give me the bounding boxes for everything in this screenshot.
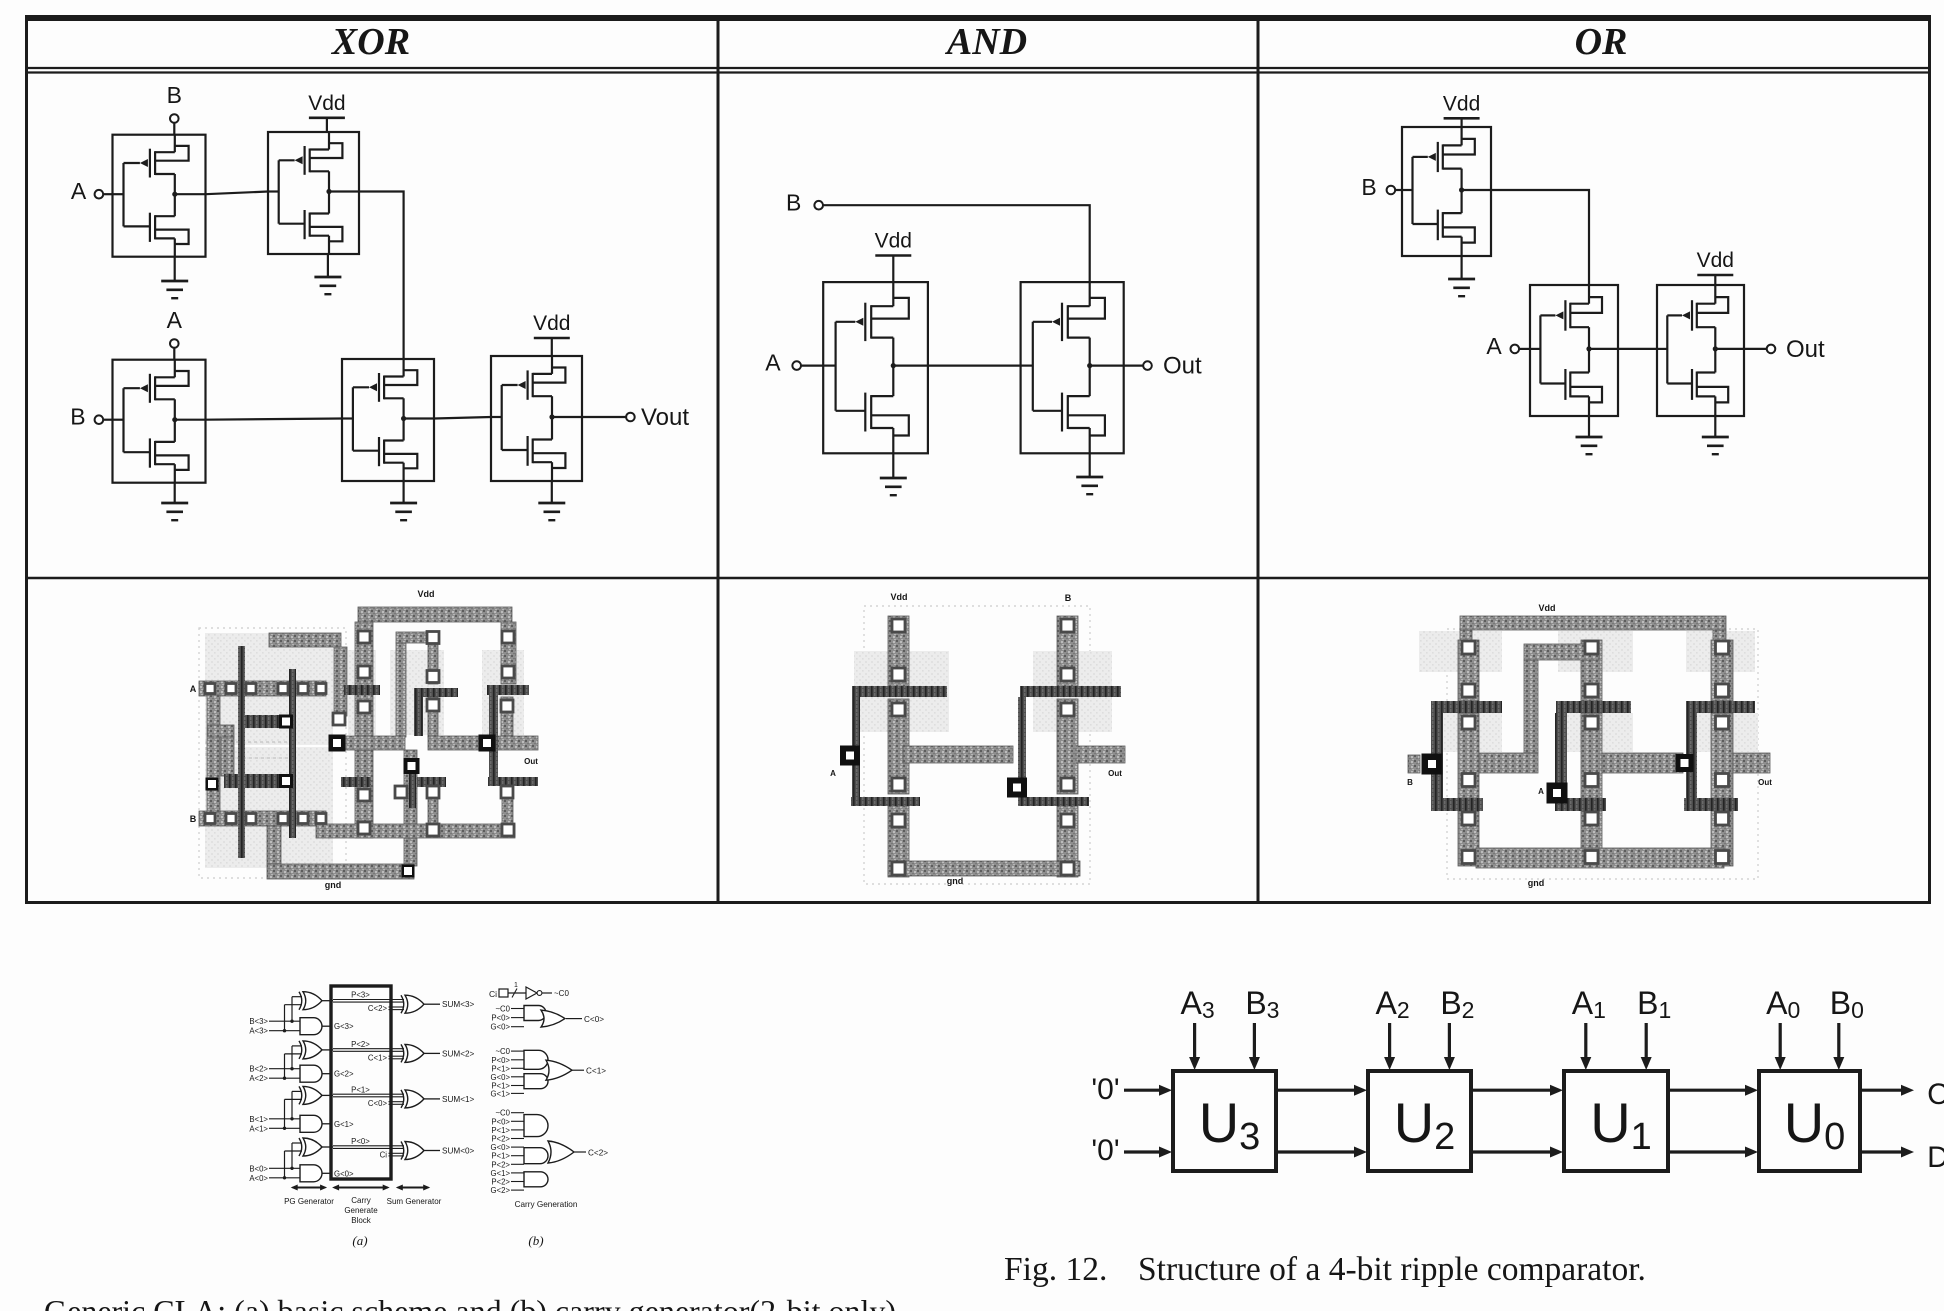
svg-text:C: C [1927, 1078, 1944, 1111]
svg-text:C<1>: C<1> [586, 1067, 606, 1076]
arrows U2 to U1 [1471, 1085, 1563, 1158]
svg-text:D: D [1927, 1141, 1944, 1174]
gate input bus of A1 (AND first inverter) [823, 322, 896, 411]
svg-text:A: A [190, 684, 197, 694]
svg-text:C<2>: C<2> [588, 1148, 608, 1157]
ground below X3 [161, 483, 188, 520]
svg-text:B<3>: B<3> [249, 1017, 268, 1026]
PMOS transistor of R1 (OR first inverter) [1413, 127, 1475, 190]
output terminal Out of OR cell [1744, 336, 1825, 363]
svg-text:A<0>: A<0> [249, 1174, 268, 1183]
NMOS transistor of X2 (XOR top-right inverter) [279, 192, 343, 255]
CLA sum XOR gate bit 1 [401, 1090, 424, 1108]
wire B to A2 top terminal [823, 205, 1090, 282]
gate input bus of R2 (OR middle block) [1530, 315, 1592, 383]
arrow A3 into U3 [1189, 1023, 1200, 1070]
output wire inside X3 (XOR bottom-left) [175, 419, 206, 421]
svg-text:Vdd: Vdd [418, 589, 435, 599]
ground below X5 [538, 481, 565, 520]
PMOS transistor of X3 (XOR bottom-left) [124, 360, 189, 420]
output wire inside R1 (OR first inverter) [1462, 189, 1491, 191]
transistor pair block X3 (XOR bottom-left) (box) [113, 360, 206, 483]
svg-text:A<1>: A<1> [249, 1124, 268, 1133]
NMOS transistor of R2 (OR middle block) [1540, 349, 1602, 416]
svg-text:Block: Block [351, 1216, 372, 1225]
ground below R1 [1448, 256, 1475, 296]
Vdd symbol above X2 [308, 92, 345, 132]
svg-text:A: A [167, 307, 183, 333]
OR layout diagram [1407, 603, 1772, 888]
svg-text:SUM<0>: SUM<0> [442, 1147, 475, 1156]
NMOS transistor of X5 (XOR output inverter) [502, 417, 566, 481]
PMOS transistor of X2 (XOR top-right inverter) [279, 132, 343, 192]
CLA sum XOR gate bit 2 [401, 1044, 424, 1062]
CLA P<1> wire [322, 1085, 404, 1096]
table column separator XOR/AND [717, 15, 720, 904]
svg-text:A: A [765, 350, 781, 376]
wire R1 output down to R2 top terminal [1491, 190, 1589, 285]
CLA AND gate bit 1 [300, 1115, 322, 1132]
transistor pair block X5 (XOR output inverter) (box) [491, 356, 582, 481]
CLA input wires B<3> A<3> [249, 997, 302, 1036]
svg-text:Ci: Ci [380, 1151, 388, 1160]
svg-text:A: A [1538, 787, 1544, 796]
input B terminal of R1 [1361, 174, 1402, 200]
svg-text:G<2>: G<2> [490, 1186, 510, 1195]
CLA XOR gate bit 2 [299, 1041, 322, 1059]
svg-text:G<0>: G<0> [334, 1169, 354, 1178]
svg-text:gnd: gnd [1528, 878, 1545, 888]
ground below A2 [1076, 453, 1103, 494]
arrow '0' lower into U3 [1124, 1147, 1172, 1158]
svg-text:P<0>: P<0> [491, 1014, 510, 1023]
arrow B3 into U3 [1249, 1023, 1260, 1070]
NMOS transistor of R3 (OR output inverter) [1667, 349, 1728, 416]
output terminal Vout [582, 404, 689, 431]
svg-text:gnd: gnd [325, 880, 342, 890]
svg-text:Out: Out [1108, 769, 1122, 778]
svg-text:B: B [190, 814, 197, 824]
table header double rule [25, 68, 1931, 73]
svg-text:A: A [71, 178, 87, 204]
PMOS transistor of A1 (AND first inverter) [836, 282, 909, 366]
XOR layout diagram [190, 589, 538, 890]
input B terminal of X3 [70, 404, 112, 430]
comparator block U3 [1173, 1071, 1276, 1171]
PMOS transistor of X5 (XOR output inverter) [502, 356, 566, 417]
svg-text:B<0>: B<0> [249, 1164, 268, 1173]
CLA G<1> wire [322, 1120, 354, 1129]
svg-text:A<3>: A<3> [249, 1027, 268, 1036]
svg-text:B: B [70, 404, 85, 430]
svg-text:gnd: gnd [947, 876, 964, 886]
svg-text:P<0>: P<0> [351, 1137, 370, 1146]
svg-text:A: A [830, 769, 836, 778]
svg-text:B: B [1407, 778, 1413, 787]
arrows U1 to U0 [1668, 1085, 1758, 1158]
input B terminal of AND cell [786, 190, 823, 216]
wire R2 output to R3 input [1618, 348, 1657, 350]
input A terminal of R2 [1486, 333, 1530, 359]
svg-text:P<3>: P<3> [351, 991, 370, 1000]
CLA XOR gate bit 0 [299, 1138, 322, 1156]
transistor pair block R2 (OR middle block) (box) [1530, 285, 1618, 416]
svg-text:B: B [786, 190, 801, 216]
Vdd symbol above A1 [875, 230, 912, 283]
svg-text:SUM<3>: SUM<3> [442, 1000, 475, 1009]
gate input bus of X4 (XOR pass block) [342, 387, 406, 450]
input A terminal of A1 [765, 350, 823, 376]
NMOS transistor of X1 (XOR top-left) [124, 194, 189, 257]
output wire inside A1 (AND first inverter) [893, 365, 928, 367]
output wire inside X4 (XOR pass block) [404, 417, 434, 419]
CLA carry wire C&lt;0&gt; [368, 1099, 404, 1108]
svg-text:Generate: Generate [344, 1206, 378, 1215]
transistor pair block X2 (XOR top-right inverter) (box) [268, 132, 359, 254]
svg-text:Ci: Ci [489, 989, 497, 999]
output wire inside R3 (OR output inverter) [1715, 348, 1744, 350]
CLA G<3> wire [322, 1022, 354, 1031]
table bottom border [25, 901, 1931, 904]
NMOS transistor of A1 (AND first inverter) [836, 366, 909, 454]
PMOS transistor of X4 (XOR pass block) [353, 359, 417, 419]
svg-text:P<1>: P<1> [351, 1085, 370, 1094]
ground below X2 [314, 254, 341, 294]
CLA SUM<0> output [424, 1147, 475, 1156]
svg-text:G<0>: G<0> [490, 1023, 510, 1032]
CLA SUM<2> output [424, 1049, 475, 1058]
svg-text:Vdd: Vdd [1443, 92, 1480, 115]
PMOS transistor of R3 (OR output inverter) [1667, 285, 1728, 349]
svg-text:Out: Out [1163, 353, 1202, 380]
AND layout diagram [830, 592, 1125, 886]
ground below R2 [1576, 416, 1603, 454]
svg-text:AND: AND [945, 21, 1027, 63]
gate input bus of X2 (XOR top-right inverter) [268, 160, 332, 223]
PMOS transistor of A2 (AND second block) [1033, 282, 1105, 366]
comparator output arrows C and D [1860, 1078, 1944, 1174]
table column separator AND/OR [1257, 15, 1260, 904]
output wire inside X2 (XOR top-right inverter) [329, 190, 359, 192]
CLA input wires B<0> A<0> [249, 1143, 302, 1183]
arrow B1 into U1 [1641, 1023, 1652, 1070]
svg-text:A<2>: A<2> [249, 1074, 268, 1083]
svg-text:SUM<2>: SUM<2> [442, 1049, 475, 1058]
CLA AND gate bit 3 [300, 1018, 322, 1035]
svg-text:B: B [1065, 593, 1072, 603]
CLA XOR gate bit 3 [299, 992, 322, 1010]
svg-text:C<1>: C<1> [368, 1053, 388, 1062]
CLA sum XOR gate bit 3 [401, 995, 424, 1013]
transistor pair block R3 (OR output inverter) (box) [1657, 285, 1744, 416]
arrow A1 into U1 [1580, 1023, 1591, 1070]
CLA G<2> wire [322, 1070, 354, 1079]
svg-text:Vdd: Vdd [1697, 249, 1734, 272]
svg-text:G<1>: G<1> [490, 1089, 510, 1098]
svg-text:B: B [167, 82, 182, 108]
CLA section arrows [291, 1185, 431, 1191]
svg-text:Out: Out [1786, 336, 1825, 363]
Vdd symbol above R1 [1443, 92, 1480, 127]
PMOS transistor of R2 (OR middle block) [1540, 285, 1602, 349]
svg-text:OR: OR [1575, 21, 1628, 63]
svg-text:SUM<1>: SUM<1> [442, 1095, 475, 1104]
table right border [1928, 15, 1931, 904]
svg-text:C<0>: C<0> [368, 1099, 388, 1108]
svg-text:~C0: ~C0 [495, 1047, 510, 1056]
output wire inside X1 (XOR top-left) [175, 193, 206, 195]
svg-text:Fig. 12.: Fig. 12. [1004, 1251, 1107, 1288]
transistor pair block A1 (AND first inverter) (box) [823, 282, 928, 453]
svg-text:PG Generator: PG Generator [284, 1197, 334, 1206]
gate input bus of R1 (OR first inverter) [1402, 157, 1464, 224]
svg-text:P<2>: P<2> [351, 1040, 370, 1049]
arrow B0 into U0 [1833, 1023, 1844, 1070]
output wire inside X5 (XOR output inverter) [552, 416, 582, 418]
CLA P<3> wire [322, 991, 404, 1002]
svg-text:'0': '0' [1091, 1134, 1119, 1167]
svg-text:1: 1 [514, 982, 518, 989]
CLA (b) C<0> gate group [490, 1005, 604, 1032]
svg-text:A: A [1486, 333, 1502, 359]
CLA carry wire C&lt;2&gt; [368, 1004, 404, 1013]
transistor pair block X4 (XOR pass block) (box) [342, 359, 434, 481]
terminal A above block X3 [167, 307, 183, 360]
arrows U3 to U2 [1276, 1085, 1367, 1158]
svg-text:Carry Generation: Carry Generation [515, 1200, 578, 1209]
arrow '0' upper into U3 [1124, 1085, 1172, 1096]
transistor pair block R1 (OR first inverter) (box) [1402, 127, 1491, 256]
terminal B above block X1 [167, 82, 182, 135]
comparator block U0 [1759, 1071, 1860, 1171]
CLA SUM<1> output [424, 1095, 475, 1104]
gate input bus of X3 (XOR bottom-left) [113, 388, 178, 452]
Vdd symbol above X5 [533, 312, 570, 356]
wire X2 output down to X4 top terminal [359, 192, 404, 360]
table left border [25, 15, 28, 904]
svg-text:Vdd: Vdd [533, 312, 570, 335]
arrow A2 into U2 [1384, 1023, 1395, 1070]
NMOS transistor of R1 (OR first inverter) [1413, 190, 1475, 256]
svg-text:'0': '0' [1091, 1073, 1119, 1106]
svg-text:Structure of a 4-bit ripple co: Structure of a 4-bit ripple comparator. [1138, 1251, 1646, 1288]
svg-text:G<1>: G<1> [334, 1120, 354, 1129]
CLA carry generator (b) - Ci inverter row [489, 982, 569, 999]
table row separator [25, 577, 1931, 580]
svg-text:Vout: Vout [641, 404, 689, 431]
NMOS transistor of X3 (XOR bottom-left) [124, 420, 189, 483]
output terminal Out of AND cell [1124, 353, 1202, 380]
wire A1 output to A2 input [928, 365, 1021, 367]
svg-text:Vdd: Vdd [891, 592, 908, 602]
svg-text:Carry: Carry [351, 1196, 371, 1205]
svg-text:Out: Out [1758, 778, 1772, 787]
gate input bus of X5 (XOR output inverter) [491, 385, 555, 450]
wire X4 output to X5 input [434, 417, 491, 419]
svg-text:~C0: ~C0 [495, 1005, 510, 1014]
svg-text:XOR: XOR [331, 21, 410, 63]
CLA carry wire C&lt;1&gt; [368, 1053, 404, 1062]
NMOS transistor of X4 (XOR pass block) [353, 419, 417, 482]
transistor pair block X1 (XOR top-left) (box) [113, 135, 206, 257]
ground below A1 [880, 453, 907, 495]
svg-text:B: B [1361, 174, 1376, 200]
table outer frame top border [25, 15, 1931, 21]
ground below X1 [161, 257, 188, 299]
svg-text:Vdd: Vdd [308, 92, 345, 115]
arrow B2 into U2 [1444, 1023, 1455, 1070]
svg-text:G<0>: G<0> [490, 1073, 510, 1082]
gate input bus of X1 (XOR top-left) [113, 163, 178, 226]
CLA AND gate bit 2 [300, 1065, 322, 1082]
CLA P<0> wire [322, 1137, 404, 1148]
arrow A0 into U0 [1775, 1023, 1786, 1070]
wire X3 output to X4 input [206, 419, 343, 420]
svg-text:C<2>: C<2> [368, 1004, 388, 1013]
CLA carry wire Ci [380, 1151, 404, 1160]
ground below X4 [390, 481, 417, 520]
CLA SUM<3> output [424, 1000, 475, 1009]
CLA basic scheme (a) - carry generate block rectangle [331, 986, 391, 1179]
svg-text:Sum Generator: Sum Generator [387, 1197, 442, 1206]
CLA (b) C<1> gate group [490, 1047, 606, 1098]
comparator block U2 [1368, 1071, 1471, 1171]
gate input bus of A2 (AND second block) [1021, 322, 1093, 411]
svg-text:Vdd: Vdd [1539, 603, 1556, 613]
svg-text:(b): (b) [528, 1233, 543, 1248]
ground below R3 [1702, 416, 1729, 454]
CLA G<0> wire [322, 1169, 354, 1178]
svg-text:~C0: ~C0 [554, 989, 569, 998]
svg-text:G<2>: G<2> [334, 1070, 354, 1079]
Vdd symbol above R3 [1697, 249, 1734, 285]
CLA input wires B<1> A<1> [249, 1091, 302, 1133]
output wire inside R2 (OR middle block) [1589, 348, 1618, 350]
svg-text:B<2>: B<2> [249, 1065, 268, 1074]
gate input bus of R3 (OR output inverter) [1657, 315, 1718, 383]
svg-text:C<0>: C<0> [584, 1015, 604, 1024]
svg-text:B<1>: B<1> [249, 1115, 268, 1124]
CLA XOR gate bit 1 [299, 1086, 322, 1104]
svg-text:Out: Out [524, 757, 538, 766]
NMOS transistor of A2 (AND second block) [1033, 366, 1105, 454]
CLA sum XOR gate bit 0 [401, 1142, 424, 1160]
svg-text:Generic CLA: (a) basic scheme: Generic CLA: (a) basic scheme and (b) ca… [44, 1293, 896, 1311]
input A terminal of X1 [71, 178, 113, 204]
transistor pair block A2 (AND second block) (box) [1021, 282, 1124, 453]
svg-text:(a): (a) [352, 1233, 367, 1248]
svg-text:Vdd: Vdd [875, 230, 912, 253]
CLA AND gate bit 0 [300, 1165, 322, 1182]
PMOS transistor of X1 (XOR top-left) [124, 135, 189, 195]
wire X1 output to X2 input [206, 192, 269, 195]
output wire inside A2 (AND second block) [1090, 365, 1124, 367]
CLA input wires B<2> A<2> [249, 1046, 302, 1083]
CLA P<2> wire [322, 1040, 404, 1051]
CLA (b) C<2> gate group [490, 1109, 608, 1195]
comparator block U1 [1564, 1071, 1668, 1171]
svg-text:G<3>: G<3> [334, 1022, 354, 1031]
comparator '0' input labels [1091, 1073, 1119, 1167]
caption Fig. 12 [1004, 1251, 1646, 1288]
CLA section label Carry Generate Block [344, 1196, 378, 1225]
